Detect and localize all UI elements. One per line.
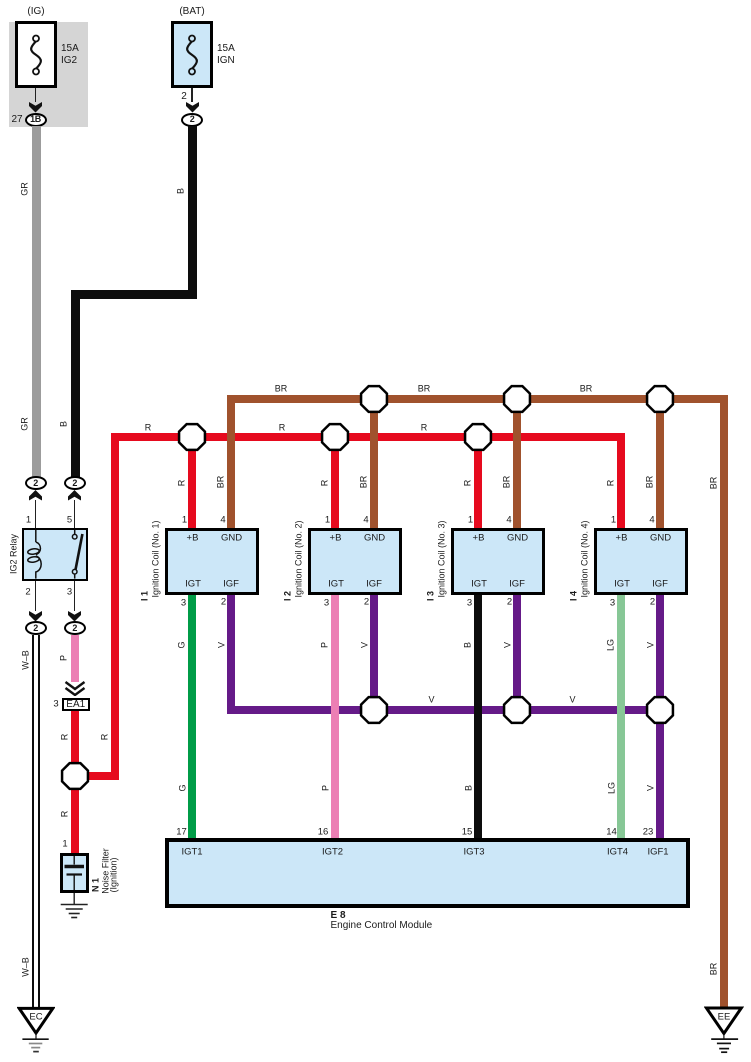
label V coil4 upper <box>646 641 655 647</box>
label GND coil2 <box>364 533 385 543</box>
label R coil1 <box>178 479 187 486</box>
pin 14 label <box>606 827 617 837</box>
pin 2 of fuse F2 <box>181 92 187 102</box>
label W-B lower <box>21 957 30 977</box>
label BR coil2 <box>359 476 368 489</box>
label +B coil4 <box>616 533 628 543</box>
label IGT coil2 <box>328 579 344 589</box>
junction octagon red bus coil1 <box>177 422 207 452</box>
label R bus 1 <box>145 424 152 433</box>
wire V coil2 IGF down to bus <box>370 595 378 715</box>
pin 2 label <box>25 587 30 597</box>
label 3 (EA1 pin) <box>53 699 58 709</box>
relay coil symbol <box>20 528 50 581</box>
pin 3 label <box>67 587 72 597</box>
ECM E8 box <box>165 838 691 908</box>
label IGT coil3 <box>471 579 487 589</box>
label V bus 1 <box>428 696 434 705</box>
wire BR bus horizontal <box>227 395 728 403</box>
label R right of junction <box>100 734 109 741</box>
junction octagon V bus coil4 <box>645 695 675 725</box>
pin 4 coil4 <box>649 515 654 525</box>
wire V coil3 IGF down to bus <box>513 595 521 715</box>
fuse F1 symbol <box>22 28 50 81</box>
label R lower <box>60 811 69 818</box>
designator I 4 <box>569 590 578 600</box>
designator I 3 <box>426 590 435 600</box>
label V lower <box>646 785 655 791</box>
label BR bus 1 <box>275 385 288 394</box>
label Engine Control Module <box>331 920 433 931</box>
noise filter N1 box <box>60 853 89 893</box>
connector oval 2 above relay pin 5 <box>64 476 86 490</box>
label GR lower <box>21 417 30 431</box>
fuse F1 15A IG2 box <box>15 21 57 88</box>
pin 4 coil2 <box>363 515 368 525</box>
pin 2 coil2 <box>364 597 369 607</box>
label IGT1 <box>181 847 202 857</box>
label 15A IGN <box>217 43 235 66</box>
pin 1 coil2 <box>325 515 330 525</box>
label GND coil1 <box>221 533 242 543</box>
label IGT4 <box>607 847 628 857</box>
wire V coil4 IGF down to ECM <box>656 595 664 841</box>
ignition coil I4 box <box>594 528 688 595</box>
junction octagon V bus coil3 <box>502 695 532 725</box>
relay K1 IG2 Relay box <box>22 528 88 581</box>
wire GR vertical (gray) <box>32 126 41 477</box>
label G upper <box>178 641 187 648</box>
wire R bus horizontal <box>111 433 625 441</box>
label (BAT) <box>179 7 204 17</box>
wire relay pin2 down <box>35 581 36 611</box>
label LG upper <box>607 638 616 650</box>
ignition coil I2 box <box>308 528 402 595</box>
wire P pink from relay pin3 oval <box>71 635 79 682</box>
pin 3 coil1 <box>181 598 186 608</box>
label B upper <box>176 188 185 194</box>
label IGT coil1 <box>185 579 201 589</box>
label IGF coil4 <box>652 579 668 589</box>
connector oval 2 above relay pin 1 <box>25 476 47 490</box>
wire R down to coil4 +B <box>617 433 625 528</box>
label V coil2 upper <box>360 641 369 647</box>
wire B horizontal jog <box>71 290 197 299</box>
pin 16 label <box>318 827 329 837</box>
label R coil2 <box>321 479 330 486</box>
pin 1 coil4 <box>611 515 616 525</box>
pin 2 coil3 <box>507 597 512 607</box>
label GND coil3 <box>507 533 528 543</box>
label R bus 3 <box>421 424 428 433</box>
arrowhead down into oval (pin2) <box>29 611 42 622</box>
label Ignition Coil (No. 1) <box>151 520 160 597</box>
label (IG) <box>27 7 44 17</box>
label BR coil3 <box>502 476 511 489</box>
junction octagon red bus coil2 <box>320 422 350 452</box>
ignition coil I3 box <box>451 528 545 595</box>
label B upper <box>464 641 473 647</box>
label W-B upper <box>21 650 30 670</box>
label BR bus 2 <box>418 385 431 394</box>
wire pin5 to relay <box>74 500 75 528</box>
connector oval 1B <box>25 113 47 127</box>
noise filter capacitor symbol <box>60 853 89 893</box>
arrowhead up into oval (pin5) <box>68 490 81 501</box>
label +B coil1 <box>187 533 199 543</box>
junction octagon red bus coil3 <box>463 422 493 452</box>
label BR bus 3 <box>580 385 593 394</box>
label +B coil3 <box>473 533 485 543</box>
wire BR to coil3 GND <box>513 403 521 528</box>
label Ignition Coil (No. 2) <box>294 520 303 597</box>
wire G coil1 IGT to ECM <box>188 595 196 841</box>
connector oval 2 below pin 2 <box>25 621 47 635</box>
pin 1 label noise filter <box>62 839 67 849</box>
wire W-B double line <box>32 635 40 1009</box>
connector oval 2 below pin 3 <box>64 621 86 635</box>
label 15A IG2 <box>61 43 79 66</box>
pin 3 coil2 <box>324 598 329 608</box>
label IGT coil4 <box>614 579 630 589</box>
label BR coil4 <box>645 476 654 489</box>
label EC <box>29 1012 42 1022</box>
pin 1 coil1 <box>182 515 187 525</box>
connector EA1 box <box>62 698 90 711</box>
label IGF1 <box>647 847 668 857</box>
label V coil1 upper <box>217 641 226 647</box>
wire R vertical x114 from bus down <box>111 433 119 780</box>
wire LG coil4 IGT to ECM <box>617 595 625 841</box>
pin 4 coil3 <box>506 515 511 525</box>
label (Ignition) <box>109 857 118 892</box>
EC ground triangle <box>17 1005 55 1057</box>
arrowhead into 1B <box>29 102 42 113</box>
label B lower <box>60 421 69 427</box>
pin 1 label <box>26 515 31 525</box>
label IGF coil3 <box>509 579 525 589</box>
wire P coil2 IGT to ECM <box>331 595 339 841</box>
pin 3 coil3 <box>467 598 472 608</box>
designator E 8 <box>331 910 346 921</box>
wire B coil3 IGT to ECM <box>474 595 482 841</box>
label BR right vertical lower <box>710 963 719 976</box>
wire pin1 to relay <box>35 500 36 528</box>
wire relay pin3 down <box>74 581 75 611</box>
label G lower <box>178 784 187 791</box>
relay switch symbol <box>60 528 90 581</box>
label P <box>60 655 69 661</box>
arrowhead into 2 <box>186 102 199 113</box>
junction octagon brown bus coil2 <box>359 384 389 414</box>
fuse F2 symbol <box>178 28 206 81</box>
pin 17 label <box>176 827 187 837</box>
pin 1 coil3 <box>468 515 473 525</box>
wire BR to coil4 GND <box>656 403 664 528</box>
pin 3 coil4 <box>610 598 615 608</box>
label P upper <box>321 641 330 647</box>
label R coil4 <box>607 479 616 486</box>
pin 2 coil1 <box>221 597 226 607</box>
ground symbol below noise filter <box>58 893 90 921</box>
ignition coil I1 box <box>165 528 259 595</box>
label V coil3 upper <box>503 641 512 647</box>
label B lower <box>464 785 473 791</box>
wire BR down to coil1 GND <box>227 395 235 528</box>
label R left upper <box>60 734 69 741</box>
label IGT3 <box>463 847 484 857</box>
wire fuse F2 to connector 2 <box>191 88 192 102</box>
double chevron into EA1 <box>64 681 86 696</box>
wire B vertical to relay pin 5 <box>71 290 80 478</box>
wire R to coil1 +B <box>188 441 196 528</box>
label Noise Filter <box>101 848 110 894</box>
arrowhead up into oval (pin1) <box>29 490 42 501</box>
wire R below junction to noise filter <box>71 765 79 853</box>
pin 15 label <box>462 827 473 837</box>
pin 2 coil4 <box>650 597 655 607</box>
pin 23 label <box>643 827 654 837</box>
wire V coil1 IGF down to bus <box>227 595 235 715</box>
wire fuse F1 to connector 1B <box>35 88 36 102</box>
label IGF coil1 <box>223 579 239 589</box>
junction octagon on R <box>60 761 90 791</box>
label +B coil2 <box>330 533 342 543</box>
wire R to coil3 +B <box>474 441 482 528</box>
junction octagon V bus coil2 <box>359 695 389 725</box>
wire BR right down to EE ground <box>720 395 728 1009</box>
connector oval 2 (BAT) <box>181 113 203 127</box>
arrowhead down into oval (pin3) <box>68 611 81 622</box>
label GR upper <box>21 182 30 196</box>
wire R to coil2 +B <box>331 441 339 528</box>
label BR coil1 <box>216 476 225 489</box>
wire V bus horizontal <box>227 706 664 714</box>
label BR right vertical upper <box>710 477 719 490</box>
wire R from EA1 down to junction <box>71 711 79 766</box>
junction octagon brown bus coil3 <box>502 384 532 414</box>
wire B vertical from fuse (black) <box>188 126 197 299</box>
label GND coil4 <box>650 533 671 543</box>
label LG lower <box>607 782 616 794</box>
EE ground triangle <box>704 1005 744 1057</box>
wire R junction to right vertical (horizontal) <box>75 772 119 780</box>
wire BR to coil2 GND <box>370 403 378 528</box>
label EE <box>718 1012 731 1022</box>
pin 5 label <box>67 515 72 525</box>
label IGF coil2 <box>366 579 382 589</box>
label IG2 Relay <box>10 534 19 574</box>
label IGT2 <box>322 847 343 857</box>
label Ignition Coil (No. 4) <box>580 520 589 597</box>
designator I 2 <box>283 590 292 600</box>
label R coil3 <box>464 479 473 486</box>
fuse F2 15A IGN box <box>171 21 213 88</box>
label V bus 2 <box>569 696 575 705</box>
label 27 <box>11 115 22 125</box>
designator I 1 <box>140 590 149 600</box>
gray ignition-switch area background <box>9 22 88 128</box>
label Ignition Coil (No. 3) <box>437 520 446 597</box>
junction octagon brown bus coil4 <box>645 384 675 414</box>
label P lower <box>321 785 330 791</box>
label R bus 2 <box>279 424 286 433</box>
label N 1 <box>92 878 101 892</box>
pin 4 coil1 <box>220 515 225 525</box>
